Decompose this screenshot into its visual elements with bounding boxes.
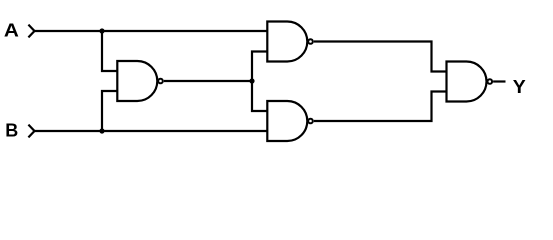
wire U2 output to U4 top input: [314, 42, 447, 72]
input port A: [28, 25, 34, 38]
svg-text:Y: Y: [513, 77, 526, 97]
wire U3 output to U4 bottom input: [314, 92, 447, 122]
wire B horizontal: [35, 130, 269, 132]
input port B: [28, 125, 34, 138]
nand gate U1: [117, 61, 163, 101]
wire N1 to U3 top input: [252, 81, 268, 111]
wire A to U1 top input: [102, 31, 118, 71]
nand gate U2: [267, 22, 313, 62]
nand gate U3: [267, 101, 313, 141]
node N1 junction: [249, 78, 254, 83]
wire A horizontal: [35, 30, 269, 32]
wire U4 output: [493, 80, 505, 82]
wire B to U1 bottom input: [102, 91, 118, 131]
wire U1 output to node N1: [164, 80, 253, 82]
wire N1 to U2 bottom input: [252, 52, 268, 82]
node A junction: [99, 28, 104, 33]
node B junction: [99, 128, 104, 133]
svg-text:B: B: [5, 121, 18, 141]
nand gate U4: [447, 62, 493, 102]
svg-text:A: A: [4, 21, 19, 41]
